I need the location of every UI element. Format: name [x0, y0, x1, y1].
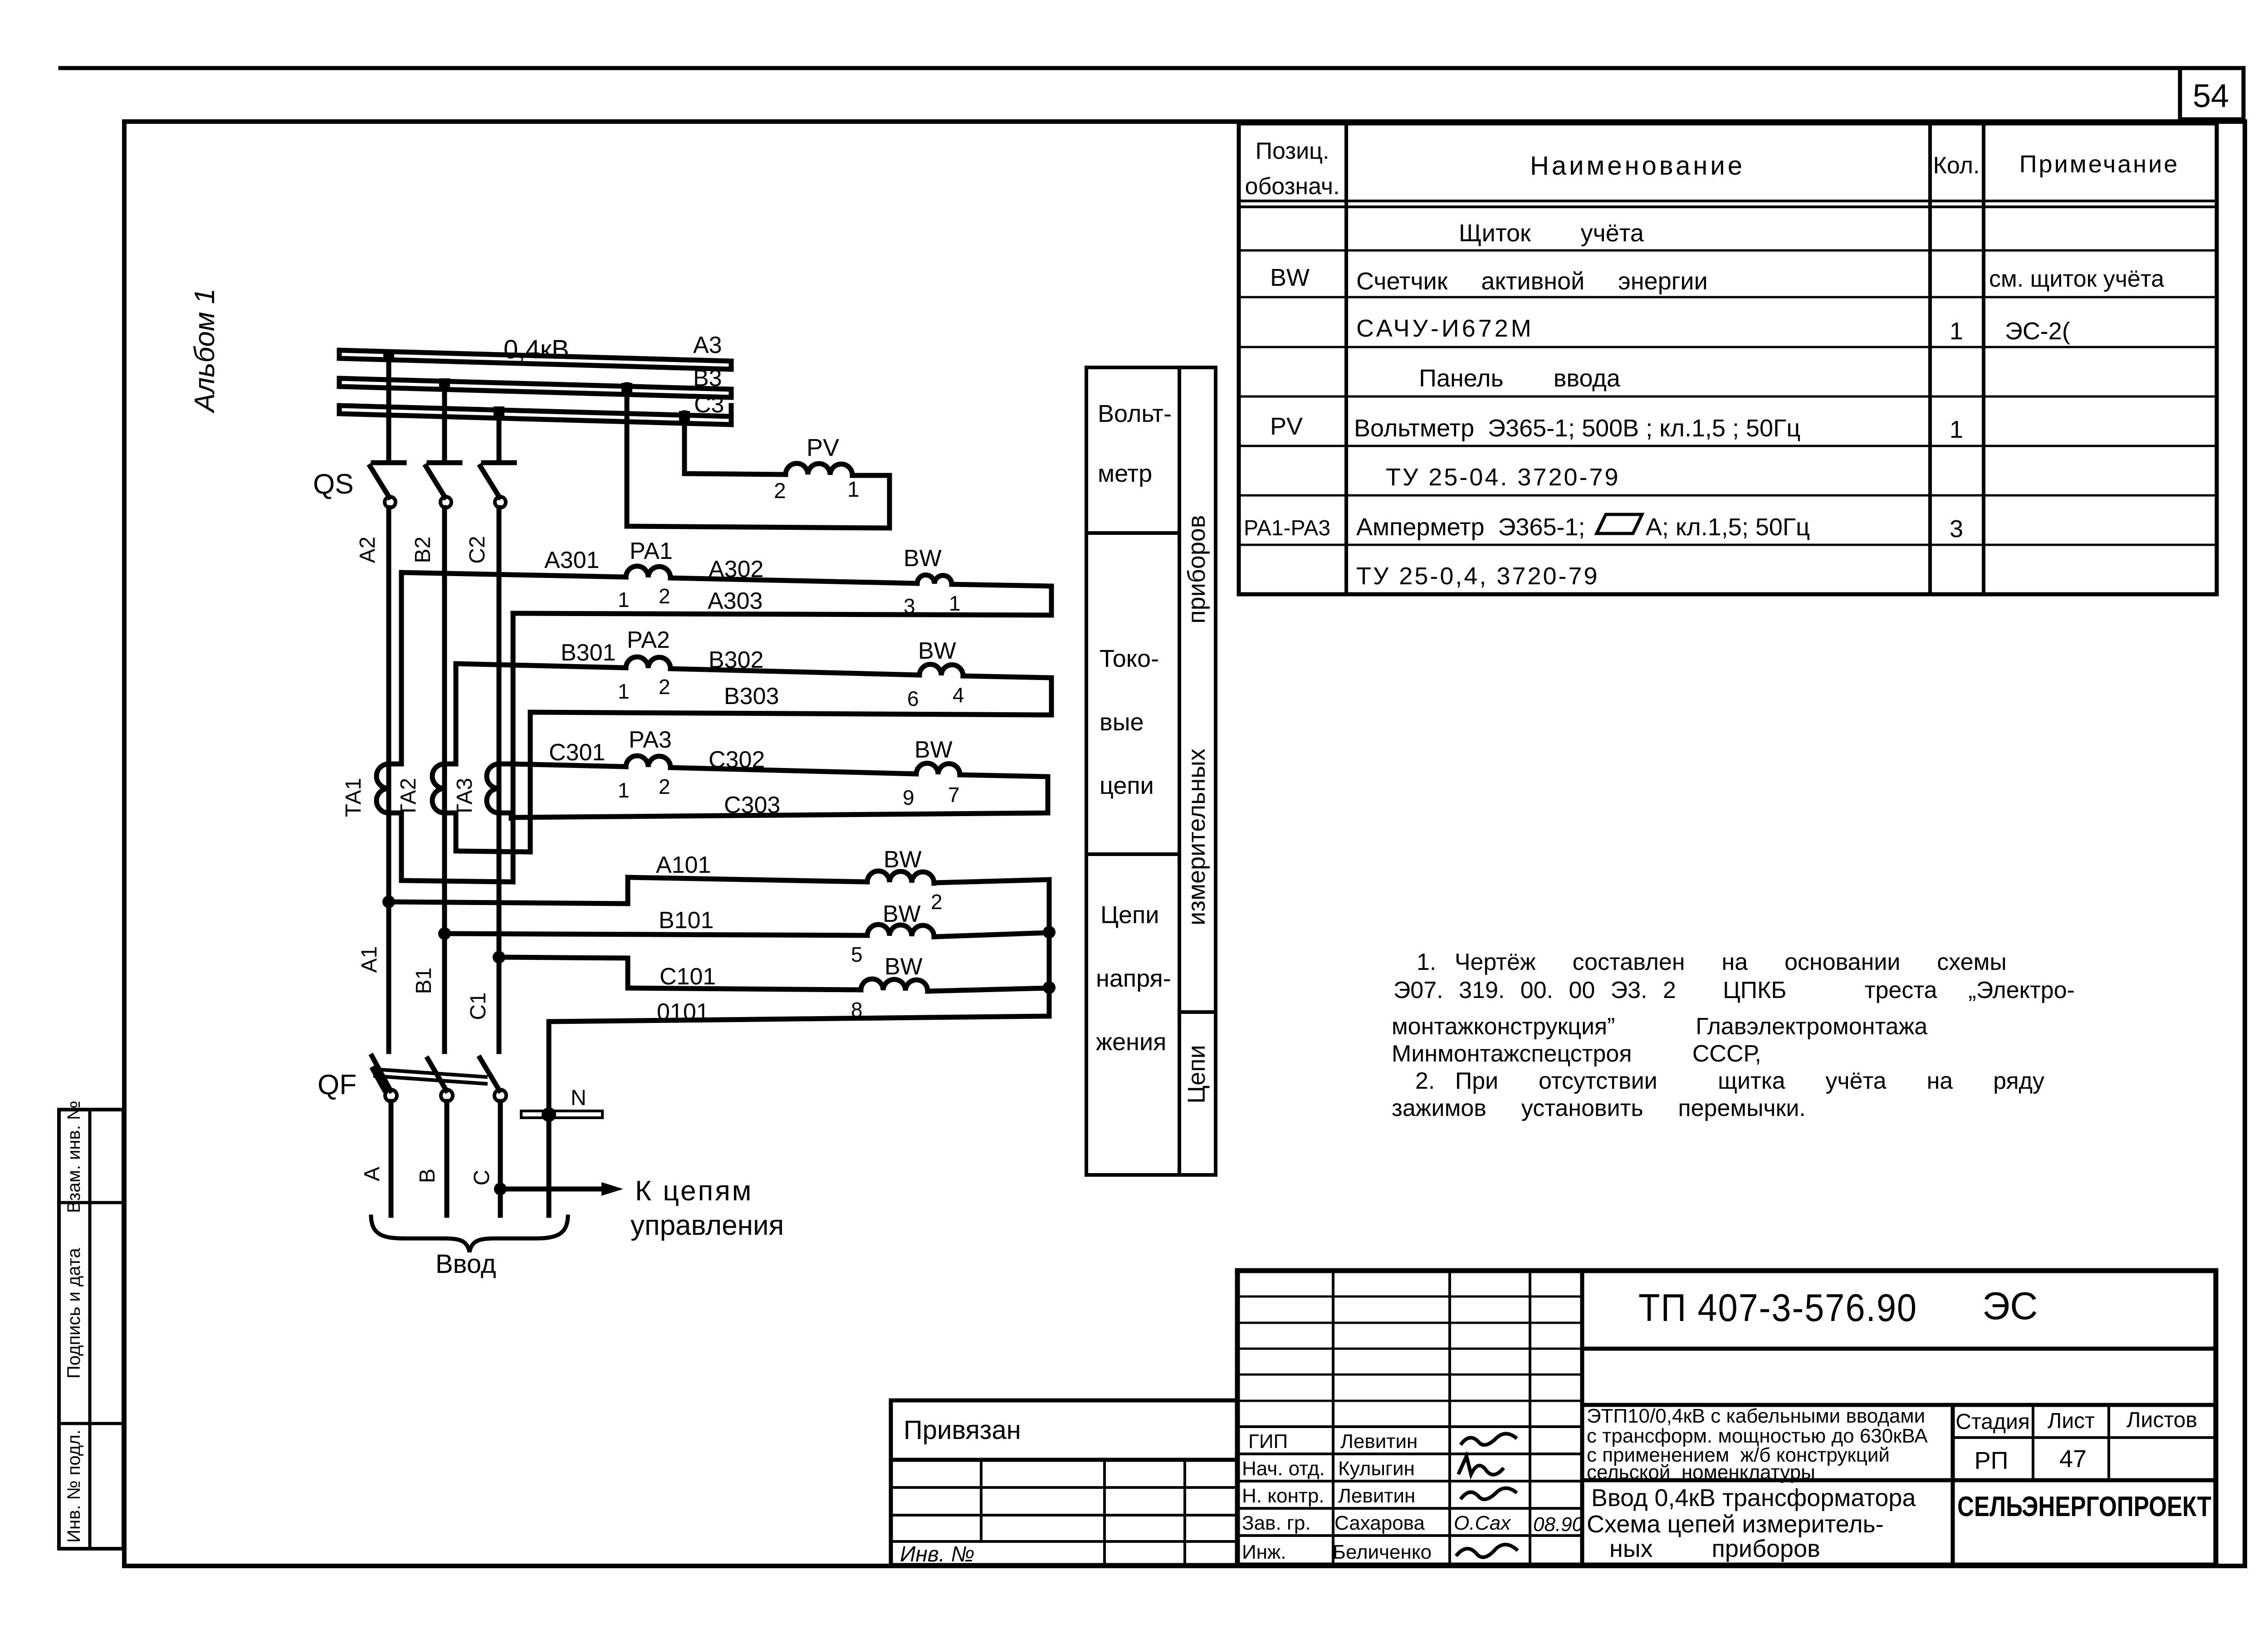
QF hinge circle pole C — [494, 1090, 506, 1101]
svg-text:Наименование: Наименование — [1530, 151, 1745, 181]
parts table row rule 3 — [1239, 346, 2217, 348]
bottom-left table row 2 — [891, 1514, 1237, 1517]
svg-text:2: 2 — [659, 584, 670, 608]
svg-text:Вольтметр Э365-1; 500В ; кл.1: Вольтметр Э365-1; 500В ; кл.1,5 ; 50Гц — [1354, 415, 1800, 442]
tap wire phase A from bus A — [386, 353, 391, 463]
svg-text:1: 1 — [618, 778, 630, 802]
svg-text:PV: PV — [1270, 413, 1303, 440]
meter BW current coil phase C — [916, 763, 960, 775]
junction dot voltage common C — [1043, 981, 1056, 994]
privyazan box — [891, 1400, 1237, 1460]
SEC_FURNITURE — [339, 350, 1051, 1252]
junction dot B101 tap — [438, 927, 451, 940]
svg-text:47: 47 — [2059, 1445, 2087, 1473]
svg-text:РП: РП — [1975, 1447, 2009, 1474]
svg-text:А101: А101 — [656, 852, 711, 878]
signature row Zav gr — [1237, 1534, 1582, 1537]
svg-text:РА1-РА3: РА1-РА3 — [1244, 516, 1330, 540]
svg-text:напря-: напря- — [1096, 965, 1171, 992]
svg-text:0101: 0101 — [657, 999, 709, 1025]
svg-text:Инж.: Инж. — [1242, 1541, 1286, 1563]
signature row GIP — [1237, 1453, 1582, 1455]
junction dot bus B tap — [439, 378, 450, 389]
svg-text:Н. контр.: Н. контр. — [1242, 1485, 1325, 1507]
QS hinge circle pole C — [495, 497, 506, 508]
current transformer TA2 winding — [432, 764, 445, 813]
svg-text:РА3: РА3 — [629, 727, 672, 753]
QS fixed contact bar pole C — [484, 460, 514, 465]
ammeter PA2 coil — [626, 657, 670, 669]
revision row 2 — [1237, 1322, 1582, 1324]
wire B303 return — [530, 712, 1051, 715]
sheet number box 54 — [2180, 68, 2244, 119]
row7 ampere placeholder box — [1597, 514, 1642, 533]
svg-text:РА2: РА2 — [627, 627, 670, 653]
signature column 2 — [1448, 1271, 1451, 1565]
title block outer border — [1237, 1271, 2216, 1565]
svg-text:А301: А301 — [544, 547, 599, 573]
svg-text:Цепи: Цепи — [1183, 1045, 1210, 1103]
svg-text:А303: А303 — [708, 588, 763, 614]
junction dot bus B voltmeter tap — [621, 383, 632, 394]
doc number cell bottom — [1582, 1347, 2216, 1351]
wire C101 right end — [928, 988, 1049, 991]
left strip cell divider 1 — [59, 1201, 123, 1204]
svg-text:А302: А302 — [709, 556, 763, 582]
control circuits arrow wire — [500, 1187, 603, 1192]
svg-text:BW: BW — [918, 638, 956, 664]
svg-text:сельской номенклатуры: сельской номенклатуры — [1587, 1461, 1815, 1483]
svg-text:С: С — [470, 1170, 494, 1186]
PV loop right side — [627, 475, 890, 528]
wire A2 phase A vertical — [386, 508, 391, 764]
svg-text:ЭС: ЭС — [1982, 1285, 2038, 1328]
svg-text:1: 1 — [1950, 416, 1963, 443]
svg-text:Позиц.: Позиц. — [1256, 138, 1330, 164]
neutral bar N — [521, 1111, 602, 1118]
stadia header rule — [1953, 1436, 2216, 1439]
svg-text:С1: С1 — [466, 992, 490, 1020]
svg-text:цепи: цепи — [1100, 772, 1154, 799]
wire C1 phase C vertical below CT — [497, 764, 502, 1052]
QF hinge circle pole A — [385, 1090, 397, 1101]
meter BW voltage coil phase B — [867, 925, 934, 937]
wire C101 voltage tap phase C — [499, 957, 861, 990]
QS blade pole B — [426, 466, 445, 497]
svg-text:Зав. гр.: Зав. гр. — [1242, 1512, 1311, 1534]
QF blade pole A — [372, 1056, 391, 1091]
signature header row — [1237, 1425, 1582, 1428]
junction dot N bar — [542, 1107, 556, 1122]
junction dot C101 tap — [493, 951, 505, 964]
svg-text:Примечание: Примечание — [2019, 151, 2180, 178]
outgoing wire phase C — [498, 1101, 503, 1215]
parts table row rule 1 — [1239, 250, 2217, 252]
signature column 1 — [1332, 1271, 1334, 1565]
wire C302 — [670, 768, 916, 774]
svg-text:Щиток учёта: Щиток учёта — [1459, 220, 1644, 247]
svg-text:А: А — [360, 1167, 384, 1181]
svg-text:BW: BW — [1270, 264, 1310, 291]
bottom-left table row 3 — [891, 1540, 1237, 1543]
SEC_SCHEMATIC — [1239, 123, 2217, 594]
parts table row rule 7 — [1239, 544, 2217, 546]
wire A101 voltage tap phase A — [389, 877, 867, 904]
meter BW voltage coil phase C — [861, 979, 928, 991]
svg-text:Ввод: Ввод — [435, 1249, 496, 1279]
svg-text:В303: В303 — [724, 683, 779, 709]
QF release dash pole A — [375, 1070, 385, 1088]
svg-text:зажимов установить перемычки: зажимов установить перемычки. — [1392, 1095, 1806, 1121]
svg-text:ТА2: ТА2 — [396, 778, 420, 817]
svg-text:СЕЛЬЭНЕРГОПРОЕКТ: СЕЛЬЭНЕРГОПРОЕКТ — [1957, 1491, 2211, 1522]
parts table row rule 2 — [1239, 296, 2217, 298]
revision row 1 — [1237, 1296, 1582, 1298]
svg-text:А2: А2 — [356, 537, 380, 563]
wire B101 voltage tap phase B — [445, 934, 867, 935]
svg-text:3: 3 — [1950, 515, 1963, 543]
svg-text:В302: В302 — [709, 647, 763, 673]
SEC_NOTES — [891, 1271, 2216, 1565]
current transformer TA1 winding — [376, 764, 389, 813]
svg-text:08.90: 08.90 — [1533, 1513, 1584, 1536]
svg-text:Листов: Листов — [2126, 1408, 2197, 1432]
ammeter PA1 coil — [626, 566, 670, 578]
voltmeter tap from bus B — [625, 385, 630, 526]
parts table header rule (double) — [1239, 201, 2217, 207]
svg-text:2: 2 — [931, 890, 943, 914]
svg-text:приборов: приборов — [1183, 515, 1210, 623]
svg-text:Инв. №: Инв. № — [900, 1542, 974, 1566]
svg-text:САЧУ-И672М: САЧУ-И672М — [1356, 315, 1534, 342]
bottom-left table col 3 — [1183, 1460, 1186, 1565]
bottom-left table row 1 — [891, 1486, 1237, 1489]
voltmeter PV coil — [786, 464, 852, 476]
sig squiggle Inzh — [1456, 1545, 1518, 1557]
svg-text:Инв. № подл.: Инв. № подл. — [64, 1429, 84, 1542]
svg-text:Панель ввода: Панель ввода — [1419, 365, 1621, 392]
junction dot voltage common B — [1043, 926, 1056, 939]
svg-text:В1: В1 — [412, 968, 436, 994]
QS blade pole A — [370, 466, 389, 497]
meter BW current coil phase B — [919, 664, 963, 676]
svg-text:N: N — [571, 1086, 587, 1110]
wire A302 — [670, 578, 917, 583]
bus C3 (double line) — [339, 406, 731, 425]
svg-text:ЭС-2(: ЭС-2( — [2005, 318, 2070, 345]
svg-text:Кол.: Кол. — [1933, 152, 1980, 179]
svg-text:1: 1 — [618, 588, 630, 612]
sheet top rule — [60, 66, 2243, 70]
revision row 4 — [1237, 1374, 1582, 1376]
svg-text:4: 4 — [953, 683, 964, 707]
svg-text:измерительных: измерительных — [1183, 749, 1210, 925]
svg-text:О.Сах: О.Сах — [1454, 1512, 1511, 1534]
wire A302 right end — [952, 584, 1051, 615]
svg-text:обознач.: обознач. — [1245, 173, 1340, 200]
parts table row rule 5 — [1239, 445, 2217, 447]
svg-text:С302: С302 — [709, 747, 765, 773]
svg-text:В2: В2 — [411, 537, 435, 563]
svg-text:А3: А3 — [693, 332, 722, 358]
wire A101 right end — [934, 880, 1049, 932]
TA2 secondary lead up to wire B301 — [445, 664, 456, 764]
parts table column naimenovanie — [1928, 123, 1932, 594]
lower section top rule — [1582, 1403, 2216, 1407]
description cell bottom — [1582, 1478, 2216, 1482]
title block main divider — [1580, 1271, 1584, 1565]
TA2 secondary return lead down — [445, 712, 530, 852]
wire C301 — [511, 764, 626, 767]
svg-text:Левитин: Левитин — [1338, 1485, 1415, 1507]
wire B1 phase B vertical below CT — [442, 764, 447, 1052]
svg-text:PV: PV — [807, 434, 839, 461]
brace Ввод — [371, 1217, 568, 1252]
svg-text:см. щиток учёта: см. щиток учёта — [1989, 266, 2164, 292]
svg-text:Кулыгин: Кулыгин — [1338, 1458, 1415, 1480]
wire B302 right end — [963, 676, 1051, 715]
outgoing wire phase B — [445, 1101, 450, 1215]
svg-text:2: 2 — [659, 675, 670, 699]
sig squiggle GIP — [1461, 1433, 1517, 1445]
svg-text:Ввод 0,4кВ трансформатора: Ввод 0,4кВ трансформатора — [1591, 1484, 1916, 1512]
wire C303 return — [511, 813, 1048, 817]
wire B301 — [456, 664, 626, 668]
QF linkage bar (double line) — [375, 1069, 486, 1084]
wire A1 phase A vertical below CT — [386, 764, 391, 1052]
svg-text:Нач. отд.: Нач. отд. — [1242, 1458, 1325, 1480]
tap wire phase C from bus C — [497, 411, 502, 463]
svg-text:ных приборов: ных приборов — [1609, 1535, 1820, 1562]
svg-text:С301: С301 — [549, 739, 605, 766]
svg-text:метр: метр — [1098, 460, 1152, 487]
QS fixed contact bar pole A — [373, 460, 404, 465]
wire A301 — [401, 572, 626, 577]
svg-text:ГИП: ГИП — [1248, 1430, 1288, 1453]
svg-text:Альбом 1: Альбом 1 — [189, 289, 220, 414]
svg-text:А; кл.1,5; 50Гц: А; кл.1,5; 50Гц — [1646, 514, 1810, 541]
arrowhead control circuits — [601, 1182, 623, 1196]
QS hinge circle pole A — [385, 497, 396, 508]
svg-text:жения: жения — [1096, 1028, 1166, 1056]
tap wire phase B from bus B — [442, 383, 447, 463]
svg-text:Беличенко: Беличенко — [1333, 1541, 1432, 1563]
svg-text:А1: А1 — [357, 946, 381, 973]
bottom-left table outer — [891, 1460, 1237, 1565]
svg-text:8: 8 — [851, 998, 863, 1022]
svg-text:2: 2 — [659, 775, 670, 798]
QF blade pole C — [480, 1058, 499, 1091]
junction dot bus C voltmeter tap — [679, 411, 690, 422]
svg-text:QS: QS — [313, 469, 354, 500]
wire C302 right end — [960, 775, 1048, 813]
svg-text:1: 1 — [847, 478, 860, 502]
svg-text:монтажконструкция” Главэлек: монтажконструкция” Главэлектромонтажа — [1392, 1013, 1927, 1040]
TA1 secondary return lead down — [389, 615, 513, 882]
svg-text:QF: QF — [318, 1069, 357, 1101]
bus B3 (double line) — [339, 378, 731, 397]
svg-text:Минмонтажспецстроя СССР,: Минмонтажспецстроя СССР, — [1392, 1041, 1761, 1067]
svg-text:3: 3 — [904, 594, 915, 618]
wire C2 phase C vertical — [497, 508, 502, 764]
svg-text:К цепям: К цепям — [635, 1175, 753, 1207]
svg-text:Взам. инв. №: Взам. инв. № — [64, 1101, 84, 1213]
svg-text:ТУ 25-04. 3720-79: ТУ 25-04. 3720-79 — [1386, 464, 1620, 491]
svg-text:В101: В101 — [659, 907, 714, 934]
sig squiggle Nach otd — [1458, 1456, 1504, 1475]
svg-text:С303: С303 — [724, 792, 780, 818]
parts table row rule 6 — [1239, 494, 2217, 497]
TA3 secondary lead to wire C301 — [499, 762, 511, 767]
TA3 secondary return lead — [499, 813, 511, 818]
svg-text:управления: управления — [631, 1210, 784, 1241]
parts table row rule 4 — [1239, 396, 2217, 398]
junction dot bus C tap — [494, 406, 504, 417]
svg-text:С3: С3 — [694, 391, 724, 418]
parts table outer border — [1239, 123, 2217, 594]
svg-text:Подпись и дата: Подпись и дата — [64, 1248, 84, 1378]
svg-text:2: 2 — [774, 479, 786, 503]
svg-text:Амперметр Э365-1;: Амперметр Э365-1; — [1356, 514, 1585, 541]
meter BW voltage coil phase A — [867, 871, 934, 883]
svg-text:BW: BW — [904, 545, 942, 572]
stadia column — [1951, 1405, 1955, 1565]
revision row 3 — [1237, 1348, 1582, 1350]
outgoing wire phase A — [389, 1101, 394, 1215]
junction dot control tap — [494, 1183, 507, 1195]
parts table column kol — [1982, 123, 1985, 594]
svg-text:Левитин: Левитин — [1340, 1430, 1417, 1453]
junction dot bus A tap — [383, 349, 394, 360]
voltmeter tap from bus C — [684, 413, 786, 475]
svg-text:Стадия: Стадия — [1955, 1410, 2030, 1434]
svg-text:В3: В3 — [693, 365, 722, 391]
QS blade pole C — [480, 466, 499, 497]
bottom-left table col 2 — [1103, 1460, 1106, 1565]
parts table column pozic — [1344, 123, 1348, 594]
left strip column divider — [88, 1110, 92, 1549]
bottom-left table col 1 — [980, 1460, 982, 1541]
svg-text:Вольт-: Вольт- — [1098, 400, 1172, 427]
bus A3 0,4kV (double line) — [339, 350, 731, 369]
svg-text:0,4кВ: 0,4кВ — [503, 335, 569, 364]
left strip cell divider 2 — [59, 1422, 123, 1425]
svg-text:BW: BW — [914, 737, 953, 763]
signature row Nach otd — [1237, 1480, 1582, 1482]
svg-text:BW: BW — [884, 846, 922, 873]
svg-text:Цепи: Цепи — [1100, 901, 1159, 929]
current transformer TA3 winding — [487, 764, 499, 813]
svg-text:Э07. 319. 00. 00 Э3. 2 ЦПКБ: Э07. 319. 00. 00 Э3. 2 ЦПКБ треста „Элек… — [1393, 977, 2075, 1003]
svg-text:7: 7 — [948, 783, 960, 807]
wire B101 right end — [934, 933, 1049, 937]
svg-text:ТУ 25-0,4, 3720-79: ТУ 25-0,4, 3720-79 — [1356, 563, 1599, 590]
svg-text:54: 54 — [2193, 78, 2229, 114]
meter BW current coil phase A — [917, 575, 952, 584]
svg-text:Токо-: Токо- — [1100, 645, 1159, 672]
svg-text:ЭТП10/0,4кВ с кабельными ввода: ЭТП10/0,4кВ с кабельными вводами — [1587, 1405, 1925, 1427]
listov column — [2107, 1405, 2110, 1480]
measuring circuits box left column — [1086, 367, 1216, 1175]
svg-text:Лист: Лист — [2048, 1409, 2095, 1433]
QF hinge circle pole B — [441, 1090, 453, 1101]
svg-text:Счетчик активной энергии: Счетчик активной энергии — [1356, 268, 1708, 295]
signature date column — [1529, 1271, 1531, 1565]
svg-text:1: 1 — [949, 592, 961, 615]
svg-text:вые: вые — [1100, 709, 1144, 736]
svg-text:ТА3: ТА3 — [453, 778, 477, 817]
svg-text:2. При отсутствии щитка уч: 2. При отсутствии щитка учёта на ряду — [1415, 1068, 2044, 1094]
wire B302 — [670, 669, 919, 675]
ammeter PA3 coil — [626, 756, 670, 768]
list column — [2032, 1405, 2034, 1480]
svg-text:Схема цепей измеритель-: Схема цепей измеритель- — [1587, 1511, 1884, 1538]
svg-text:6: 6 — [907, 687, 919, 710]
svg-text:В: В — [415, 1169, 440, 1183]
TA1 secondary lead up to wire A301 — [389, 572, 401, 764]
svg-text:Сахарова: Сахарова — [1334, 1512, 1425, 1534]
svg-text:ТП 407-3-576.90: ТП 407-3-576.90 — [1638, 1287, 1917, 1330]
svg-text:РА1: РА1 — [630, 538, 673, 564]
QS hinge circle pole B — [440, 497, 451, 508]
junction dot A101 tap — [382, 895, 395, 908]
wire B2 phase B vertical — [442, 508, 447, 764]
QF blade pole B — [428, 1059, 446, 1091]
voltage coils common vertical — [1047, 932, 1052, 1016]
svg-text:1: 1 — [618, 680, 630, 703]
svg-text:BW: BW — [883, 901, 921, 927]
svg-text:ТА1: ТА1 — [342, 778, 366, 817]
sig squiggle N kontr — [1461, 1488, 1517, 1499]
left margin strip box — [59, 1110, 123, 1549]
revision row 5 — [1237, 1400, 1582, 1402]
svg-text:1. Чертёж составлен на осно: 1. Чертёж составлен на основании схемы — [1417, 949, 2007, 975]
signature row N kontr — [1237, 1507, 1582, 1510]
svg-text:1: 1 — [1950, 318, 1963, 345]
wire A303 return — [513, 613, 1051, 615]
svg-text:Привязан: Привязан — [904, 1415, 1021, 1445]
svg-text:С101: С101 — [660, 964, 716, 990]
QS fixed contact bar pole B — [429, 460, 460, 465]
wire 0101 neutral — [549, 1016, 1049, 1215]
svg-text:С2: С2 — [465, 536, 489, 563]
svg-text:5: 5 — [851, 943, 863, 966]
svg-text:9: 9 — [903, 786, 914, 809]
svg-text:BW: BW — [885, 954, 923, 980]
svg-text:В301: В301 — [561, 640, 616, 666]
